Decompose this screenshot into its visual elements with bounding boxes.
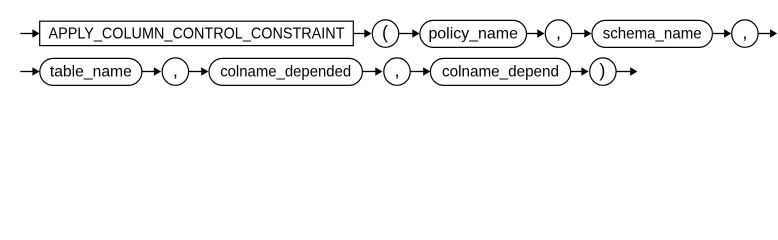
wire: row 1 start arrow [20, 29, 39, 38]
non-terminal table_name [40, 58, 142, 85]
punctuation circle ( [372, 20, 398, 47]
wire: row 1 wrap arrow to right edge [758, 29, 777, 38]
wire: arrow to comma 4 [362, 67, 382, 76]
punctuation circle ) [590, 58, 616, 85]
wire: arrow to schema_name [572, 29, 592, 38]
wire: arrow to colname_depended [189, 67, 209, 76]
non-terminal colname_depended [209, 58, 362, 85]
wire: arrow to policy_name [399, 29, 420, 38]
non-terminal schema_name [592, 20, 712, 47]
non-terminal colname_depend [430, 58, 570, 85]
svg-text:,: , [742, 23, 747, 43]
wire: arrow to comma 1 [527, 29, 545, 38]
svg-text:schema_name: schema_name [603, 25, 702, 42]
svg-text:table_name: table_name [50, 63, 132, 80]
svg-text:APPLY_COLUMN_CONTROL_CONSTRAIN: APPLY_COLUMN_CONTROL_CONSTRAINT [49, 25, 345, 42]
wire: arrow to colname_depend [411, 67, 431, 76]
svg-text:): ) [599, 61, 605, 81]
punctuation circle comma 3 [162, 58, 188, 85]
svg-text:colname_depend: colname_depend [442, 63, 559, 80]
svg-text:,: , [173, 61, 178, 81]
svg-text:,: , [556, 23, 561, 43]
punctuation circle comma 4 [384, 58, 410, 85]
wire: arrow to comma 3 [142, 67, 161, 76]
svg-text:policy_name: policy_name [428, 25, 518, 42]
wire: arrow to comma 2 [712, 29, 731, 38]
non-terminal policy_name [420, 20, 527, 47]
punctuation circle comma 2 [732, 20, 758, 47]
wire: arrow to ( [353, 29, 372, 38]
terminal keyword APPLY_COLUMN_CONTROL_CONSTRAINT [40, 21, 354, 45]
punctuation circle comma 1 [545, 20, 571, 47]
svg-text:(: ( [382, 23, 388, 43]
wire: row 2 start arrow [20, 67, 39, 76]
wire: arrow to closing paren [571, 67, 589, 76]
wire: row 2 end arrow [616, 67, 637, 76]
svg-text:,: , [394, 61, 399, 81]
svg-text:colname_depended: colname_depended [220, 63, 351, 80]
